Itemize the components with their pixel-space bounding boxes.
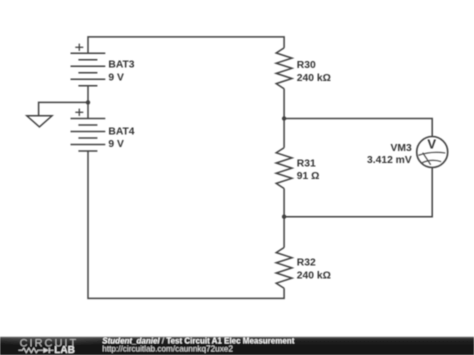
svg-text:R31: R31 <box>297 158 316 169</box>
resistor R31 <box>276 148 292 189</box>
BAT4 plus sign <box>75 109 83 116</box>
svg-text:VM3: VM3 <box>391 143 412 154</box>
wire node1 to voltmeter top <box>284 119 432 137</box>
ground <box>27 116 52 127</box>
svg-text:http://circuitlab.com/caunnkq7: http://circuitlab.com/caunnkq72uxe2 <box>102 344 233 353</box>
svg-text:V: V <box>427 137 436 152</box>
battery BAT4 <box>71 119 106 152</box>
svg-text:BAT4: BAT4 <box>108 126 134 137</box>
svg-text:R32: R32 <box>297 257 316 268</box>
svg-text:9 V: 9 V <box>108 72 124 83</box>
wire voltmeter bottom to node2 <box>284 168 432 217</box>
resistor R30 <box>276 48 292 89</box>
svg-text:BAT3: BAT3 <box>108 60 134 71</box>
wire BAT4 bottom down and across <box>88 151 284 298</box>
node C junction dot <box>282 215 286 219</box>
svg-text:9 V: 9 V <box>108 139 124 150</box>
wire R31 to R32 <box>283 189 285 248</box>
svg-text:240 kΩ: 240 kΩ <box>297 73 331 84</box>
wire ground tap <box>39 102 88 115</box>
resistor R32 <box>276 248 292 289</box>
svg-text:3.412 mV: 3.412 mV <box>367 155 412 166</box>
svg-text:LAB: LAB <box>54 345 75 355</box>
node B junction dot <box>282 116 286 120</box>
voltmeter VM3 <box>417 137 448 168</box>
svg-text:91 Ω: 91 Ω <box>297 171 320 182</box>
wire BAT3 bottom to node <box>87 86 89 119</box>
BAT3 plus sign <box>75 44 83 51</box>
svg-text:240 kΩ: 240 kΩ <box>297 270 331 281</box>
CircuitLab logo: diode <box>43 348 53 353</box>
footer bar <box>0 330 474 355</box>
wire top horizontal <box>88 37 284 53</box>
CircuitLab logo: resistor squiggle <box>19 348 44 353</box>
svg-text:R30: R30 <box>297 60 316 71</box>
node A junction dot <box>86 100 90 104</box>
wire R30 to R31 <box>283 89 285 148</box>
battery BAT3 <box>71 53 106 86</box>
